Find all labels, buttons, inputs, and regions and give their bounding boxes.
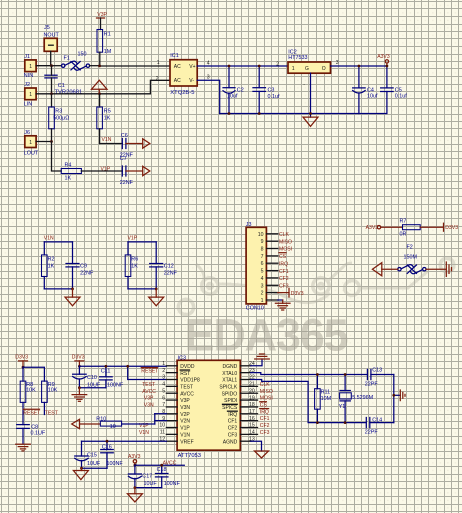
svg-text:2: 2 (162, 368, 165, 374)
pin name SPIDI (224, 398, 237, 404)
net label CS at IC3 pin 18 (260, 402, 268, 409)
svg-text:MOSI: MOSI (279, 247, 292, 253)
svg-text:R7: R7 (400, 219, 407, 225)
wire fuse to R1 node (90, 65, 100, 67)
svg-text:V3P: V3P (180, 398, 190, 404)
junction fuse/R1 (98, 65, 101, 68)
svg-text:100NF: 100NF (107, 382, 124, 388)
capacitor C18 (155, 465, 168, 487)
pin 14 of IC3 (240, 430, 257, 436)
svg-text:CF1: CF1 (228, 419, 238, 425)
wire V1N top (44, 241, 72, 243)
resistor R8 (20, 367, 26, 424)
junction J6 on trunk (50, 140, 53, 143)
net label MOSI at J3 pin 8 (279, 247, 292, 253)
wire J2 to IC1 pin2 (52, 80, 171, 94)
pin name CF1 (228, 419, 238, 425)
pin 5 of J3 (261, 269, 278, 275)
svg-text:C2: C2 (237, 87, 244, 93)
port left triangle at R10 (72, 419, 101, 428)
svg-text:C10: C10 (87, 375, 97, 381)
svg-text:R3: R3 (55, 108, 62, 114)
capacitor C6 (121, 139, 123, 149)
svg-text:C7: C7 (120, 156, 127, 162)
pin name AGND (223, 439, 238, 445)
svg-text:IRQ: IRQ (279, 261, 288, 267)
svg-text:AVCC: AVCC (180, 391, 194, 397)
junction pin3 branch (126, 365, 129, 368)
svg-text:CS: CS (279, 254, 287, 260)
svg-text:V3P: V3P (97, 12, 107, 18)
svg-text:5.5296M: 5.5296M (352, 395, 373, 401)
svg-text:2: 2 (276, 61, 279, 67)
svg-text:1K: 1K (65, 176, 72, 182)
svg-text:2: 2 (156, 76, 159, 82)
wire IC2 gnd down (310, 73, 312, 117)
junction Y1 bottom (344, 421, 347, 424)
net label CF1 at IC3 pin 16 (260, 416, 270, 422)
svg-text:1: 1 (292, 66, 295, 72)
net label CLK at IC3 pin 21 (260, 382, 271, 388)
svg-text:8: 8 (261, 247, 264, 253)
connector J5 (44, 25, 60, 66)
pin 13 of IC3 (240, 436, 255, 442)
svg-text:TEST: TEST (45, 410, 58, 416)
svg-text:CF3: CF3 (260, 430, 270, 436)
svg-text:F1: F1 (64, 56, 70, 62)
svg-text:G: G (305, 66, 309, 72)
wire AVCC rail (135, 464, 184, 466)
svg-text:A3V3: A3V3 (377, 54, 390, 60)
wire IC3 pin13 AGND to ground (251, 441, 262, 451)
resistor R9 (42, 381, 48, 414)
pin name V3N (180, 405, 190, 411)
junction D3V3 R8 (22, 366, 25, 369)
svg-text:EDA365: EDA365 (185, 310, 348, 361)
wire trunk J5-C1-J2 (51, 66, 53, 94)
wire V1P bottom (128, 288, 156, 290)
pin name V2P (180, 412, 190, 418)
svg-text:6: 6 (261, 261, 264, 267)
svg-text:AC: AC (174, 64, 181, 70)
ic IC3 ATT7053 (177, 355, 240, 450)
ground at J3 pin1 (275, 300, 290, 310)
ground under C15 (73, 468, 88, 479)
pin 9 of IC3 (162, 416, 177, 422)
svg-text:10: 10 (159, 423, 165, 429)
capacitor C13 (367, 369, 393, 379)
svg-text:CLK: CLK (260, 382, 271, 388)
pin name VREF (180, 439, 193, 445)
junction C16 top (106, 440, 109, 443)
protective earth above J2 net (92, 80, 108, 94)
svg-text:F2: F2 (407, 245, 413, 251)
svg-text:5: 5 (162, 388, 165, 394)
capacitor C7 (121, 166, 123, 176)
svg-text:AGND: AGND (223, 439, 238, 445)
net label CF3 at J3 pin 3 (279, 284, 289, 290)
svg-text:V2P: V2P (180, 412, 190, 418)
capacitor C5 (381, 66, 394, 114)
power port V3P (97, 12, 108, 29)
svg-text:22NF: 22NF (164, 270, 178, 276)
pin 15 of IC3 (240, 423, 257, 429)
svg-text:SPIDI: SPIDI (224, 398, 237, 404)
svg-text:1M: 1M (104, 49, 112, 55)
svg-text:C16: C16 (102, 444, 112, 450)
svg-text:C15: C15 (87, 452, 97, 458)
svg-text:10M: 10M (321, 396, 332, 402)
wire IC2 out to A3V3 (331, 65, 387, 67)
resistor R6 (125, 242, 131, 289)
svg-text:1: 1 (29, 92, 32, 98)
ground under IC2 (303, 117, 318, 126)
svg-text:10: 10 (110, 424, 116, 430)
wire V1P top (128, 241, 156, 243)
net label CLK at J3 pin 10 (279, 232, 290, 238)
svg-text:1: 1 (29, 140, 32, 146)
junction R11 bottom (316, 421, 319, 424)
junction C15 gnd (80, 467, 83, 470)
junction D3V3 C10 (78, 365, 81, 368)
svg-text:C14: C14 (372, 418, 382, 424)
pin 2 of J3 (261, 291, 278, 297)
svg-text:C17: C17 (142, 474, 152, 480)
pin 16 of IC3 (240, 416, 257, 422)
svg-text:V3N: V3N (180, 405, 190, 411)
svg-text:C18: C18 (157, 467, 167, 473)
svg-text:CS: CS (260, 403, 268, 409)
wire to crystal ground (394, 394, 401, 396)
svg-text:XTQ2B-5: XTQ2B-5 (170, 90, 194, 96)
power port D3V3 at C10 (72, 355, 85, 367)
svg-text:VDD1P8: VDD1P8 (180, 378, 200, 384)
svg-text:1: 1 (157, 60, 160, 66)
resistor R10 (100, 421, 121, 426)
pin 6 of J3 (261, 261, 278, 267)
wire branch to IC3 pin3 (128, 366, 167, 379)
pin 21 of IC3 (240, 382, 257, 388)
svg-text:CF1: CF1 (260, 416, 270, 422)
power port D3V3 at R8 R9 (15, 355, 28, 368)
svg-text:LOUT: LOUT (24, 151, 39, 157)
svg-text:9: 9 (261, 239, 264, 245)
wire R5 to C6 (100, 143, 123, 145)
svg-text:J6: J6 (24, 130, 30, 136)
svg-text:TEST: TEST (180, 384, 193, 390)
resistor R5 (97, 94, 103, 144)
junction J1/J5/C1 (50, 64, 53, 67)
pin name XTAL0 (222, 371, 237, 377)
junction C3 bottom (258, 112, 261, 115)
svg-text:TEST: TEST (142, 382, 155, 388)
wire C15 C16 bottom (82, 467, 108, 469)
svg-text:SPICS: SPICS (222, 405, 238, 411)
junction C3 top (258, 65, 261, 68)
junction A3V3/C5 (386, 65, 389, 68)
pin 10 of IC3 (159, 423, 177, 429)
wire D3V3 to R9 (23, 367, 44, 381)
junction V1N gnd (71, 288, 74, 291)
svg-text:CF2: CF2 (228, 426, 238, 432)
earth ground under C8 (16, 443, 31, 445)
svg-text:DGND: DGND (222, 364, 237, 370)
svg-text:0.1UF: 0.1UF (31, 431, 46, 437)
svg-text:V1P: V1P (128, 236, 138, 242)
pin 12 of IC3 (159, 436, 177, 442)
svg-text:4: 4 (261, 276, 264, 282)
svg-text:R2: R2 (48, 256, 55, 262)
pin 2 of IC3 (162, 368, 177, 374)
svg-text:150: 150 (78, 52, 87, 58)
pin 1 of IC3 (162, 361, 177, 367)
wire C17 C18 bottom (135, 487, 162, 489)
capacitor C15 (75, 441, 89, 468)
svg-text:R10: R10 (96, 417, 106, 423)
svg-text:V3N: V3N (144, 403, 154, 409)
svg-text:IRQ: IRQ (228, 412, 237, 418)
pin 18 of IC3 (240, 402, 257, 408)
pin 6 of IC3 (162, 395, 177, 401)
pin name V1P (180, 426, 190, 432)
svg-text:10K: 10K (26, 388, 36, 394)
svg-text:4: 4 (162, 382, 165, 388)
net label MOSI at IC3 pin 19 (260, 396, 273, 402)
wire crystal right vertical (393, 375, 395, 423)
svg-text:CF3: CF3 (279, 284, 289, 290)
net label MISO at J3 pin 9 (279, 239, 292, 245)
capacitor C16 (101, 441, 114, 468)
pin 9 of J3 (261, 239, 278, 245)
svg-text:J5: J5 (44, 25, 50, 31)
wire J1 node to fuse (52, 65, 62, 67)
junction Y1 top (344, 373, 347, 376)
resistor R3 (49, 94, 55, 142)
svg-text:D3V3: D3V3 (15, 355, 28, 361)
pin name AVCC (180, 391, 194, 397)
svg-text:SPIDO: SPIDO (222, 391, 238, 397)
svg-text:XTAL1: XTAL1 (222, 378, 237, 384)
watermark logo (178, 258, 453, 314)
resistor R2 (42, 242, 48, 289)
svg-text:R11: R11 (321, 390, 331, 396)
capacitor C11 (100, 366, 113, 387)
svg-text:V1N: V1N (139, 430, 149, 436)
svg-text:-: - (303, 82, 305, 88)
pin 19 of IC3 (240, 395, 257, 401)
svg-text:1: 1 (261, 298, 264, 304)
svg-text:V1N: V1N (180, 432, 190, 438)
svg-text:3: 3 (261, 283, 264, 289)
capacitor C9 (66, 242, 79, 289)
svg-text:D3V3: D3V3 (445, 225, 458, 231)
pin name XTAL1 (222, 378, 237, 384)
svg-text:V-: V- (189, 78, 194, 84)
port arrow V1N (143, 139, 150, 148)
svg-text:V+: V+ (189, 64, 195, 70)
svg-text:AC: AC (174, 78, 181, 84)
power port D3V3 at J3 pin2 (278, 288, 304, 297)
svg-text:HT7533: HT7533 (288, 55, 307, 61)
junction C10 gnd (78, 386, 81, 389)
capacitor C14 (366, 418, 394, 428)
connector J3 CON10 (246, 222, 267, 304)
regulator IC2 (288, 49, 331, 73)
junction C2 bottom (228, 112, 231, 115)
svg-text:0.1uf: 0.1uf (268, 94, 280, 100)
pin name V1N (180, 432, 190, 438)
svg-text:7: 7 (162, 402, 165, 408)
pin 8 of J3 (261, 247, 278, 253)
svg-text:Y1: Y1 (339, 404, 346, 410)
svg-text:7: 7 (261, 254, 264, 260)
svg-text:D3V3: D3V3 (72, 355, 85, 361)
svg-text:100NF: 100NF (107, 461, 124, 467)
pin name V3P (180, 398, 190, 404)
svg-text:22NF: 22NF (120, 180, 134, 186)
ground under C17 (127, 488, 142, 502)
svg-text:CON10: CON10 (246, 305, 264, 311)
svg-text:10uf: 10uf (367, 94, 378, 100)
net label MISO at IC3 pin 20 (260, 389, 273, 395)
svg-text:22NF: 22NF (80, 270, 94, 276)
wire IC1 pin3 down to rail (197, 80, 220, 113)
wire R4 to C7 (81, 170, 122, 172)
power port A3V3 at R7 (366, 225, 403, 231)
net label CS at J3 pin 7 (279, 253, 287, 260)
pin 7 of J3 (261, 254, 278, 260)
resistor R1 (97, 30, 103, 66)
svg-text:CF3: CF3 (228, 432, 238, 438)
svg-text:CF2: CF2 (260, 423, 270, 429)
svg-text:3: 3 (207, 74, 210, 80)
earth ground right of F2 (426, 262, 452, 276)
svg-text:1: 1 (162, 361, 165, 367)
pin 22 of IC3 (240, 375, 255, 381)
earth ground under C10 (72, 388, 87, 402)
svg-text:ATT7053: ATT7053 (178, 453, 201, 459)
power port A3V3 top (377, 54, 390, 66)
fuse F1 (62, 52, 90, 71)
svg-text:3: 3 (162, 375, 165, 381)
net label IRQ at J3 pin 6 (279, 261, 288, 267)
capacitor C8 (17, 425, 30, 444)
svg-text:CF2: CF2 (279, 276, 289, 282)
pin 3 of IC3 (162, 375, 177, 381)
svg-text:V3P: V3P (144, 396, 154, 402)
junction C2 top (228, 65, 231, 68)
wire R1 node to IC1 pin1 (100, 65, 170, 67)
svg-text:C12: C12 (164, 263, 174, 269)
svg-text:10uf: 10uf (227, 94, 238, 100)
svg-text:CF1: CF1 (279, 269, 289, 275)
power port A3V3 at C17 (128, 454, 141, 465)
wire IC3 pin12 to C15 (82, 440, 167, 442)
junction C18 top (160, 464, 163, 467)
junction J2/C1 trunk (50, 92, 53, 95)
wire R10 to IC3 pins 8 9 (122, 414, 167, 424)
pin name RST (180, 370, 190, 377)
svg-text:3: 3 (336, 60, 339, 66)
svg-text:MOSI: MOSI (260, 396, 273, 402)
pin 3 of J3 (261, 283, 278, 289)
svg-text:LIN: LIN (24, 101, 32, 107)
pin name SPICS (222, 404, 238, 411)
pin 17 of IC3 (240, 409, 257, 415)
crystal Y1 (340, 375, 352, 423)
wire C7 to port arrow (126, 170, 143, 172)
svg-text:22PF: 22PF (365, 382, 379, 388)
wire IC3 pin24 DGND to earth (251, 359, 262, 366)
svg-text:10: 10 (258, 232, 264, 238)
net label RESET (23, 409, 40, 416)
svg-text:AVCC: AVCC (142, 389, 156, 395)
svg-text:RESET: RESET (23, 410, 40, 416)
wire ground rail (220, 113, 387, 115)
svg-text:150M: 150M (404, 255, 418, 261)
pin 11 of IC3 (160, 430, 177, 436)
svg-text:IC1: IC1 (170, 53, 178, 59)
resistor R11 (315, 375, 321, 423)
pin name VDD1P8 (180, 378, 200, 384)
pin 8 of IC3 (162, 409, 177, 415)
capacitor C12 (150, 242, 163, 289)
junction R5/earth on J2 net (98, 92, 101, 95)
ground of V1N net (65, 289, 80, 306)
net label IRQ at IC3 pin 17 (260, 409, 269, 416)
pin 10 of J3 (258, 232, 278, 238)
connector J6 (24, 130, 52, 157)
wire trunk to R4 (52, 142, 62, 172)
svg-text:C9: C9 (80, 263, 87, 269)
svg-text:IRQ: IRQ (260, 409, 269, 415)
pin 1 of J3 (261, 298, 278, 304)
pin name DVDD (180, 364, 195, 370)
net label CF2 at IC3 pin 15 (260, 423, 270, 429)
svg-text:NIN: NIN (24, 73, 33, 79)
pin name CF2 (228, 426, 238, 432)
svg-text:D3V3: D3V3 (291, 291, 304, 297)
capacitor C10 (73, 366, 87, 387)
svg-text:AVCC: AVCC (163, 461, 177, 467)
svg-text:1K: 1K (131, 263, 138, 269)
wire C6 to port arrow (126, 143, 143, 145)
junction C17 gnd (134, 486, 137, 489)
pin 4 of IC3 (162, 382, 177, 388)
wire C10 C11 bottom (79, 387, 106, 389)
svg-text:R4: R4 (65, 163, 72, 169)
transformer IC1 (170, 53, 197, 86)
pin 7 of IC3 (162, 402, 177, 408)
svg-text:100NF: 100NF (164, 481, 181, 487)
pin 5 of IC3 (162, 388, 177, 394)
wire XTAL1 net (251, 380, 366, 423)
svg-text:11: 11 (160, 430, 165, 436)
pin 20 of IC3 (240, 388, 257, 394)
svg-text:1: 1 (29, 64, 32, 70)
svg-text:DVDD: DVDD (180, 364, 195, 370)
capacitor C4 (353, 66, 366, 114)
connector J2 (24, 82, 52, 107)
junction C11 top (105, 365, 108, 368)
svg-text:MISO: MISO (279, 239, 292, 245)
svg-text:RST: RST (180, 371, 190, 377)
svg-text:RESET: RESET (141, 369, 158, 375)
power port D3V3 at R7 (420, 223, 458, 231)
pin name V2N (180, 419, 190, 425)
pin name TEST (180, 384, 193, 390)
svg-text:22PF: 22PF (365, 429, 379, 435)
